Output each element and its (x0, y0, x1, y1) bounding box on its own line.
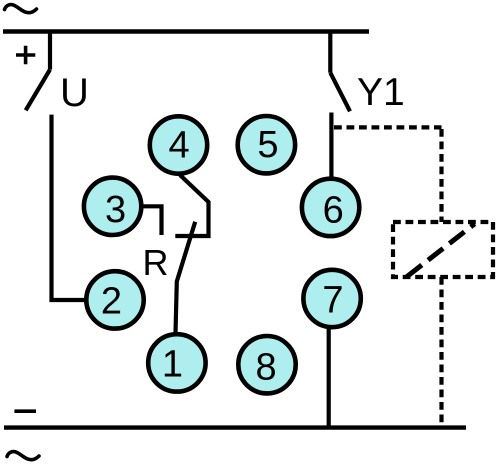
dashed vertical wire from relay box to bottom rail (439, 277, 443, 428)
switch U blade (26, 70, 50, 111)
wire from terminal 7 to bottom rail (327, 329, 331, 428)
svg-text:R: R (143, 242, 169, 283)
svg-text:6: 6 (323, 190, 344, 232)
plus symbol (16, 46, 35, 65)
terminal 8 (238, 336, 295, 393)
switch Y1 blade (330, 73, 350, 112)
svg-text:2: 2 (101, 280, 122, 322)
terminal 6 (302, 179, 359, 236)
dashed vertical wire down to relay box (439, 129, 443, 222)
wire from switch Y1 to terminal 6 (329, 113, 333, 179)
terminal 5 (238, 116, 295, 173)
bottom AC tilde symbol (7, 452, 39, 460)
top supply rail (3, 29, 369, 33)
step wire from terminal 3 to contact R (143, 206, 162, 235)
switch Y1 top terminal wire (328, 30, 332, 73)
dashed relay contact box (393, 222, 493, 277)
dashed wire from Y1 to relay coil (334, 125, 442, 129)
svg-text:U: U (60, 71, 89, 115)
terminal 3 (84, 178, 141, 235)
terminal 1 (148, 334, 205, 391)
svg-text:1: 1 (162, 343, 183, 385)
svg-text:3: 3 (105, 189, 126, 231)
switch U top terminal wire (48, 30, 52, 70)
wire hook from terminal 4 to contact R fixed point (175, 175, 208, 236)
terminal 4 (150, 116, 207, 173)
svg-text:8: 8 (256, 346, 277, 388)
contact R blade from terminal 1 (176, 222, 196, 333)
top AC tilde symbol (5, 5, 37, 13)
wire from switch U to terminal 2 (52, 115, 86, 300)
terminal 7 (303, 270, 360, 327)
minus symbol (14, 409, 36, 413)
bottom supply rail (4, 425, 466, 429)
dashed contact blade inside box (407, 224, 475, 277)
svg-text:5: 5 (257, 124, 278, 166)
terminal 2 (86, 271, 143, 328)
svg-text:4: 4 (169, 125, 190, 167)
svg-text:Y1: Y1 (357, 71, 405, 114)
svg-text:7: 7 (322, 279, 343, 321)
